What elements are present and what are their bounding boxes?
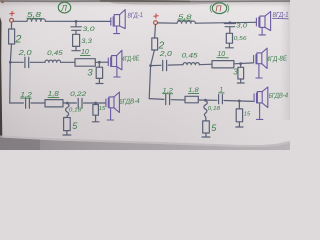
svg-text:3,0: 3,0: [83, 26, 95, 33]
resistor 0,56: [226, 33, 232, 43]
svg-text:2: 2: [14, 33, 21, 45]
resistor 10: [75, 59, 95, 66]
green handwritten labels: [14, 2, 288, 133]
resistor 5: [64, 118, 71, 131]
speaker 6ГДВ-4 right: [254, 93, 256, 103]
resistor 10 right: [212, 61, 234, 68]
shadow band under top edge: [0, 0, 1, 1]
soft corner shading: [0, 0, 1, 1]
wire shunt drop: [75, 21, 77, 26]
resistor 2: [11, 22, 13, 29]
capacitor 3,0 right: [224, 24, 235, 34]
wire: [171, 99, 185, 101]
wire left bus: [10, 44, 12, 103]
node 15 right: [239, 100, 241, 102]
inductor L1 5,8: [27, 19, 45, 22]
svg-text:2,0: 2,0: [17, 50, 31, 57]
paper background: [0, 0, 290, 150]
node shunt1: [75, 21, 77, 23]
node 0,18 right: [205, 99, 207, 101]
wire row2 right: [151, 64, 161, 66]
right bus: [149, 50, 154, 99]
capacitor 2,0: [25, 57, 29, 67]
node R3 drop: [99, 62, 101, 64]
svg-text:0,45: 0,45: [47, 50, 63, 57]
resistor 1,8: [45, 100, 63, 107]
wire drop: [66, 103, 69, 118]
resistor 2 right: [154, 25, 157, 39]
svg-text:8ГД-1: 8ГД-1: [272, 12, 288, 20]
resistor 5 right: [203, 121, 210, 133]
svg-text:6ГДВ-4: 6ГДВ-4: [119, 98, 140, 106]
svg-text:4ГД-8Е: 4ГД-8Е: [266, 55, 287, 63]
wire: [168, 64, 183, 66]
resistor 3 right: [240, 64, 242, 68]
wire: [61, 61, 75, 63]
red speck top-left corner: [1, 0, 4, 3]
wire: [95, 61, 108, 63]
terminal + right: [154, 14, 158, 18]
resistor 3: [98, 62, 100, 67]
terminal +: [10, 11, 14, 15]
wire row2: [10, 61, 23, 63]
inductor 0,45 right: [183, 63, 199, 65]
wire top row: [13, 20, 27, 22]
svg-text:0,45: 0,45: [182, 52, 198, 59]
input terminal right: [154, 21, 158, 25]
wire: [199, 63, 212, 66]
speakers in violet: [106, 10, 271, 120]
wire row3: [10, 102, 24, 104]
svg-text:4ГД-8Е: 4ГД-8Е: [122, 55, 140, 63]
speaker 8ГД-1 right: [256, 17, 259, 27]
label П circled: [212, 3, 226, 14]
svg-text:10: 10: [81, 49, 89, 56]
wire top row right: [157, 22, 177, 24]
label Л circled: [58, 2, 70, 13]
resistor 1,8 right: [185, 96, 198, 103]
svg-text:6ГДВ-4: 6ГДВ-4: [268, 92, 288, 100]
capacitor 1,2 right: [166, 94, 170, 104]
node 15 drop: [95, 102, 97, 104]
node shunt right: [229, 22, 231, 24]
svg-text:2,0: 2,0: [159, 51, 172, 58]
node 0,18 drop: [66, 102, 68, 104]
wire: [31, 102, 45, 104]
table surface below paper: [0, 138, 290, 151]
capacitor 1,2: [26, 98, 30, 108]
top photo edge line: [0, 0, 290, 2]
wire: [63, 102, 76, 104]
svg-text:3: 3: [233, 67, 238, 76]
svg-text:П: П: [215, 4, 222, 14]
speaker 4ГД-8Е left: [108, 57, 110, 66]
svg-text:15: 15: [99, 106, 106, 112]
svg-text:3,0: 3,0: [236, 23, 247, 30]
svg-text:0,18: 0,18: [208, 106, 222, 112]
wire: [224, 100, 254, 103]
violet speaker name labels: [127, 12, 288, 20]
wire: [195, 21, 256, 24]
wire: [198, 99, 217, 101]
capacitor 0,22: [78, 98, 82, 108]
svg-text:15: 15: [244, 112, 251, 118]
svg-text:2: 2: [158, 40, 165, 51]
wire + end tick: [72, 46, 80, 50]
wire: [234, 62, 253, 65]
left dark photo edge: [0, 17, 2, 138]
node row2 right: [150, 65, 152, 67]
wire: [30, 61, 45, 63]
speaker 6ГДВ-4 left: [106, 98, 108, 108]
wire: [45, 20, 111, 22]
wire: [84, 102, 106, 104]
svg-text:8ГД-1: 8ГД-1: [127, 12, 143, 20]
svg-text:3: 3: [87, 68, 93, 79]
svg-text:10: 10: [217, 51, 225, 58]
inductor 5,8 right: [177, 21, 195, 23]
svg-text:0,18: 0,18: [69, 107, 82, 113]
svg-text:0,22: 0,22: [70, 91, 87, 98]
wire drop right: [204, 100, 207, 121]
resistor 3,3: [73, 34, 80, 46]
svg-text:Л: Л: [60, 4, 67, 13]
shadow just above paper edge: [0, 137, 290, 147]
resistor 15 right: [238, 101, 240, 109]
inductor 0,45: [45, 60, 61, 62]
capacitor 1 right: [219, 95, 223, 104]
input terminal: [10, 18, 14, 22]
svg-text:0,56: 0,56: [234, 36, 248, 42]
capacitor 3,0: [71, 27, 82, 35]
wire row3 right: [149, 98, 164, 101]
node R3 right: [240, 63, 242, 65]
capacitor 2,0 right: [163, 60, 167, 70]
speaker 8ГД-1 left: [111, 17, 113, 27]
node row2: [10, 62, 12, 64]
speaker 4ГД-8Е right: [254, 54, 256, 64]
svg-text:3,3: 3,3: [81, 38, 92, 45]
resistor 15: [95, 103, 97, 105]
